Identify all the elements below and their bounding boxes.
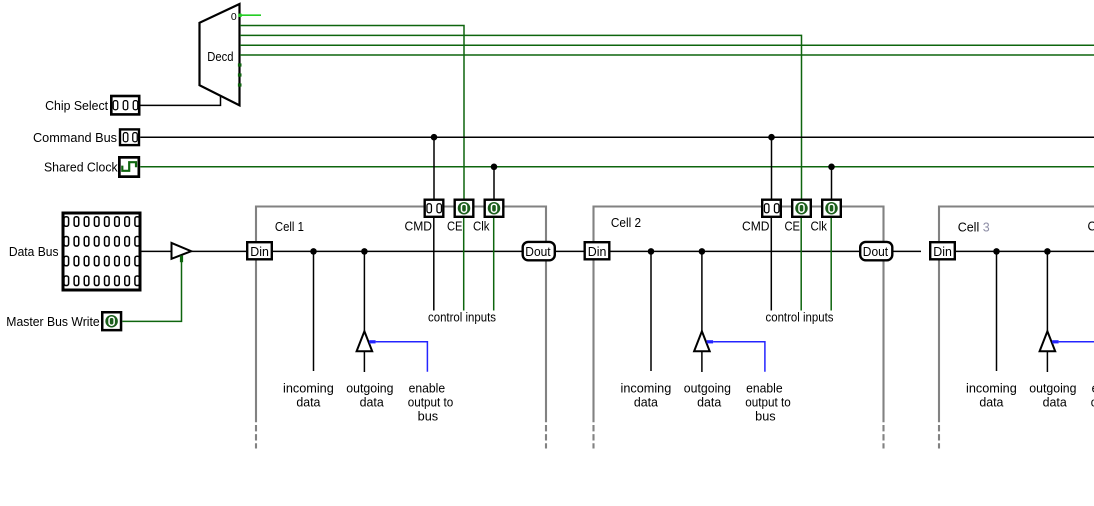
wire Din to Dout cell 2: [611, 250, 860, 252]
decoder Decd: [200, 4, 242, 105]
svg-text:Din: Din: [250, 245, 269, 259]
svg-text:enable: enable: [746, 381, 783, 395]
wire command bus to CMD probe cell 2: [771, 137, 773, 199]
svg-text:data: data: [697, 396, 721, 410]
tunnel Din cell 2: [585, 242, 610, 259]
wire clock junction to Clk pin cell 1: [493, 167, 495, 200]
svg-text:Master Bus Write: Master Bus Write: [6, 315, 99, 329]
wire incoming data cell 3: [996, 251, 998, 371]
junction shared clock cell 2: [828, 164, 835, 171]
wire tri-state enable (floating) cell 3: [1059, 341, 1094, 343]
tri-state buffer cell 1: [357, 331, 376, 351]
wire decoder output 2 to Cell 2 CE: [240, 35, 802, 199]
svg-text:Cell 1: Cell 1: [275, 220, 304, 234]
svg-text:incoming: incoming: [621, 381, 672, 395]
svg-text:incoming: incoming: [966, 381, 1017, 395]
wire tri-state enable (floating) cell 1: [376, 342, 428, 372]
tunnel Dout cell 1: [523, 242, 555, 260]
pin Clk cell 2 (value 0): [822, 200, 841, 217]
svg-text:output to: output to: [408, 396, 454, 410]
probe CMD cell 2 (value 00): [762, 200, 781, 217]
wire decoder output 4 (off-screen): [240, 54, 1094, 56]
svg-text:incoming: incoming: [283, 381, 334, 395]
svg-text:bus: bus: [755, 410, 776, 424]
junction incoming data cell 3: [993, 248, 1000, 255]
wire decoder output 1 to Cell 1 CE: [240, 26, 464, 200]
svg-text:outgoing: outgoing: [1029, 381, 1076, 395]
wire tri-state output cell 3: [1046, 351, 1048, 372]
svg-text:control inputs: control inputs: [428, 310, 496, 324]
svg-text:Clk: Clk: [473, 220, 490, 234]
clock source Shared Clock: [44, 157, 139, 176]
wire Clk to control inputs cell 2: [830, 218, 832, 311]
wire command bus: [140, 136, 1094, 138]
svg-text:Din: Din: [588, 245, 607, 259]
buffer (bus driver): [172, 243, 192, 262]
wire outgoing data to tri-state cell 1: [363, 251, 365, 331]
label enable output to bus cell 1: [408, 381, 454, 423]
junction outgoing data cell 3: [1044, 248, 1051, 255]
svg-text:bus: bus: [418, 410, 439, 424]
wire buffer output to Cell 1 Din: [191, 250, 246, 252]
wire Data Bus to buffer: [142, 250, 172, 252]
wire clock junction to Clk pin cell 2: [831, 167, 833, 200]
cell 3 border: [939, 207, 1094, 449]
tunnel Dout cell 2: [860, 242, 892, 260]
wire Dout cell 2 to next cell: [894, 250, 922, 252]
wire incoming data cell 2: [650, 251, 652, 371]
junction command bus cell 1: [431, 134, 438, 141]
svg-text:data: data: [360, 396, 384, 410]
junction command bus cell 2: [768, 134, 775, 141]
junction incoming data cell 1: [310, 248, 317, 255]
label outgoing data cell 3: [1029, 381, 1076, 409]
svg-text:Cell 3: Cell 3: [958, 221, 990, 235]
pin CE cell 1 (value 0): [455, 200, 474, 217]
input pin Master Bus Write (1-bit, value 0): [6, 312, 121, 330]
wire incoming data cell 1: [313, 251, 315, 371]
svg-text:CE: CE: [785, 220, 801, 234]
svg-text:CMD: CMD: [1088, 220, 1094, 234]
cell 2 border: [594, 207, 884, 449]
svg-text:CE: CE: [447, 220, 463, 234]
wire Clk to control inputs cell 1: [493, 218, 495, 311]
pin CE cell 2 (value 0): [792, 200, 811, 217]
wire tri-state output cell 2: [701, 351, 703, 372]
label incoming data cell 2: [621, 381, 672, 409]
junction outgoing data cell 2: [699, 248, 706, 255]
svg-text:Clk: Clk: [811, 220, 828, 234]
wire CMD to control inputs cell 2: [770, 218, 772, 311]
wire decoder output 0 (stub, high): [238, 14, 261, 17]
svg-text:control inputs: control inputs: [766, 310, 834, 324]
wire command bus to CMD probe cell 1: [433, 137, 435, 199]
input pin Chip Select (3-bit, value 000): [45, 96, 139, 114]
svg-text:CMD: CMD: [742, 220, 770, 234]
svg-text:Data Bus: Data Bus: [9, 245, 59, 259]
wire CE to control inputs cell 2: [800, 218, 802, 311]
svg-text:Shared Clock: Shared Clock: [44, 161, 118, 175]
svg-text:data: data: [634, 396, 658, 410]
svg-text:Decd: Decd: [207, 50, 233, 64]
wire Din to Dout cell 3: [956, 250, 1094, 252]
wire Din to Dout cell 1: [273, 250, 522, 252]
label enable output to bus cell 2: [745, 381, 791, 423]
wire shared clock: [140, 166, 1094, 168]
junction outgoing data cell 1: [361, 248, 368, 255]
tunnel Din cell 3: [930, 242, 955, 259]
label outgoing data cell 1: [346, 381, 393, 409]
probe CMD cell 1 (value 00): [425, 200, 444, 217]
svg-text:CMD: CMD: [405, 220, 433, 234]
input pin Data Bus (32-bit, value 0): [9, 213, 140, 290]
label enable output to bus cell 3: [1091, 381, 1094, 423]
svg-text:outgoing: outgoing: [684, 381, 731, 395]
tunnel Din cell 1: [247, 242, 272, 259]
tri-state buffer cell 2: [694, 331, 713, 351]
svg-text:Dout: Dout: [525, 245, 551, 259]
wire CMD to control inputs cell 1: [433, 218, 435, 311]
svg-text:Dout: Dout: [863, 245, 889, 259]
cell 1 border: [256, 207, 546, 449]
wire outgoing data to tri-state cell 2: [701, 251, 703, 331]
svg-text:data: data: [296, 396, 320, 410]
svg-text:Command Bus: Command Bus: [33, 131, 117, 145]
junction shared clock cell 1: [491, 164, 498, 171]
svg-text:enable: enable: [409, 381, 446, 395]
wire outgoing data to tri-state cell 3: [1046, 251, 1048, 331]
tri-state buffer cell 3: [1040, 331, 1059, 351]
input pin Command Bus (2-bit, value 00): [33, 129, 139, 145]
svg-text:Din: Din: [933, 245, 952, 259]
label outgoing data cell 2: [684, 381, 731, 409]
svg-text:output to: output to: [745, 396, 791, 410]
svg-text:data: data: [979, 396, 1003, 410]
svg-text:outgoing: outgoing: [346, 381, 393, 395]
label incoming data cell 3: [966, 381, 1017, 409]
svg-text:Chip Select: Chip Select: [45, 99, 109, 113]
wire tri-state output cell 1: [363, 351, 365, 372]
junction incoming data cell 2: [648, 248, 655, 255]
wire Chip Select to decoder select: [141, 96, 221, 106]
wire Master Bus Write to buffer enable: [122, 259, 181, 321]
label incoming data cell 1: [283, 381, 334, 409]
svg-text:data: data: [1043, 396, 1067, 410]
wire decoder output 3 (to Cell 3, off-screen): [240, 44, 1094, 46]
svg-text:Cell 2: Cell 2: [611, 216, 641, 230]
pin Clk cell 1 (value 0): [485, 200, 504, 217]
wire tri-state enable (floating) cell 2: [713, 342, 765, 372]
svg-text:0: 0: [231, 11, 237, 23]
wire CE to control inputs cell 1: [463, 218, 465, 311]
wire Dout cell 1 to next cell: [556, 250, 584, 252]
